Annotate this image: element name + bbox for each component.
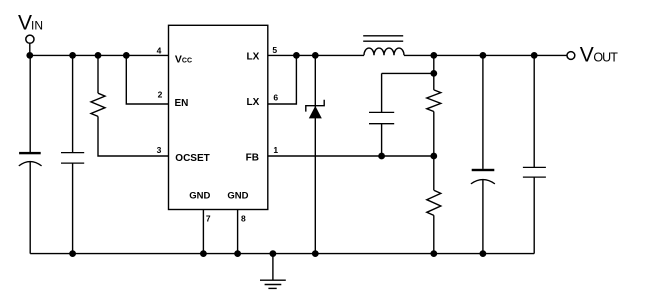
wire C3 bottom lead	[482, 179, 484, 254]
svg-text:OCSET: OCSET	[175, 153, 209, 164]
wire R1 bottom lead to OCSET	[98, 116, 169, 156]
node dots bottom rail	[69, 250, 486, 257]
wire C1 bottom lead	[29, 161, 31, 254]
ground symbol	[260, 254, 286, 289]
capacitor C3 output electrolytic	[471, 169, 495, 184]
svg-text:1: 1	[273, 145, 278, 155]
wire C4 bottom lead	[533, 177, 535, 254]
svg-text:GND: GND	[189, 190, 210, 201]
node dots FB line	[378, 153, 437, 160]
svg-text:FB: FB	[246, 153, 259, 164]
node dot Cff tap	[430, 70, 437, 77]
wire bottom ground rail	[30, 253, 534, 255]
terminal VOUT circle	[567, 52, 575, 60]
svg-text:5: 5	[272, 45, 277, 55]
node dots top rail	[26, 52, 129, 59]
wire C4 top lead	[533, 55, 535, 167]
wire Cff bottom lead	[381, 124, 383, 156]
resistor R1 OCSET	[91, 93, 105, 116]
capacitor C1 input electrolytic	[19, 152, 42, 166]
wire inductor to VOUT	[404, 54, 567, 56]
diode D1 schottky	[306, 100, 324, 119]
svg-text:LX: LX	[247, 51, 260, 62]
wire diode branch	[314, 55, 316, 253]
wire C3 top lead	[482, 55, 484, 168]
resistor R2 feedback top	[427, 90, 441, 112]
wire FB line pin1	[268, 155, 434, 157]
svg-text:3: 3	[157, 145, 162, 155]
svg-text:2: 2	[158, 90, 163, 100]
op IC U1 body	[169, 25, 268, 209]
resistor R3 feedback bottom	[427, 190, 441, 215]
svg-text:GND: GND	[227, 190, 248, 201]
wire feedback chain middle	[433, 112, 435, 191]
wire feedback chain top	[433, 55, 435, 90]
wire C2 bottom lead	[72, 163, 74, 254]
inductor L1	[363, 36, 404, 56]
wire Cff horizontal	[382, 72, 434, 74]
svg-text:6: 6	[273, 93, 278, 103]
wire top input rail	[30, 54, 169, 56]
wire pin8 gnd	[237, 210, 239, 254]
wire VIN drop	[29, 43, 31, 55]
capacitor Cff feedforward	[369, 112, 394, 123]
wire C2 top lead	[72, 55, 74, 152]
terminal VIN circle	[26, 35, 34, 43]
svg-text:4: 4	[157, 45, 162, 55]
wire R1 top lead	[97, 55, 99, 93]
capacitor C4 output ceramic	[523, 167, 546, 177]
wire EN	[126, 55, 168, 104]
capacitor C2 input ceramic	[61, 153, 84, 164]
svg-text:EN: EN	[175, 98, 189, 109]
svg-text:LX: LX	[247, 97, 260, 108]
wire Cff top lead	[381, 73, 383, 112]
wire feedback chain bottom	[433, 215, 435, 253]
wire LX pin6 loop	[268, 55, 297, 104]
wire C1 top lead	[29, 55, 31, 152]
svg-text:7: 7	[206, 214, 211, 224]
node dots LX line	[293, 52, 319, 59]
wire LX pin5 to inductor	[268, 54, 364, 56]
wire pin7 gnd	[202, 210, 204, 254]
svg-text:8: 8	[241, 214, 246, 224]
node dots output rail	[430, 52, 537, 59]
